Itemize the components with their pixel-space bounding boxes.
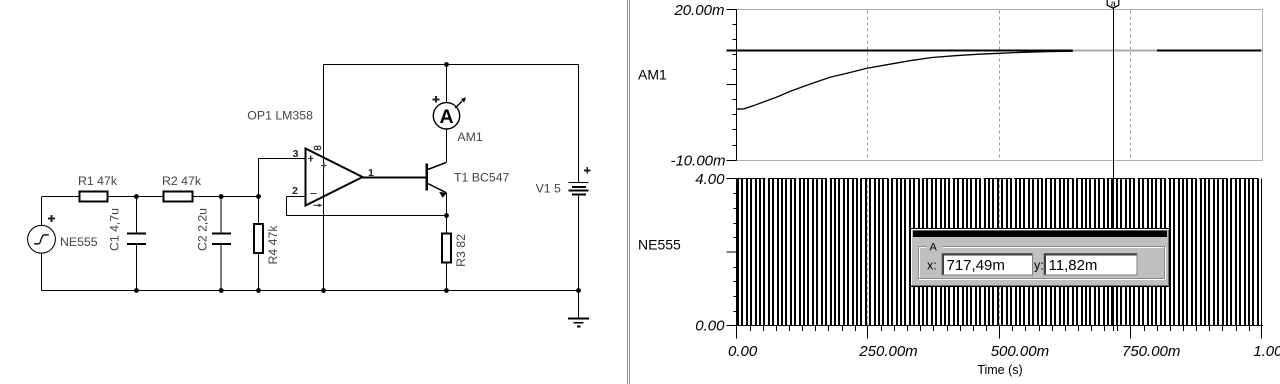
op-amp minus input mark <box>310 193 316 195</box>
cursor a vertical line <box>1113 7 1115 332</box>
wire C1 bottom <box>135 245 137 291</box>
transistor emitter lead with arrow <box>428 184 446 193</box>
svg-text:R4 47k: R4 47k <box>266 225 280 265</box>
wire R3 to bottom rail <box>446 263 448 291</box>
capacitor C2 <box>212 233 231 235</box>
svg-text:A: A <box>439 106 453 128</box>
svg-text:AM1: AM1 <box>638 67 667 83</box>
svg-text:Time (s): Time (s) <box>977 363 1022 377</box>
ground symbol <box>568 318 589 320</box>
op-amp triangle <box>306 149 363 206</box>
svg-text:750.00m: 750.00m <box>1122 343 1180 360</box>
node R1/C1/R2 junction <box>134 194 139 199</box>
NE555 x-axis <box>737 325 1264 327</box>
svg-text:A: A <box>930 242 938 254</box>
svg-text:AM1: AM1 <box>457 130 482 144</box>
cursor a handle <box>1107 0 1119 8</box>
wire op-amp power rail vertical <box>323 65 325 291</box>
svg-text:20.00m: 20.00m <box>673 2 724 19</box>
transistor T1 BC547 <box>425 164 427 191</box>
popup title bar <box>913 231 1167 238</box>
AM1 steady-state trace gray segment <box>737 50 1262 52</box>
svg-text:250.00m: 250.00m <box>858 343 917 360</box>
svg-text:R1 47k: R1 47k <box>78 174 118 188</box>
AM1 steady-state trace black right segment <box>1157 50 1262 52</box>
svg-text:x:: x: <box>927 259 937 273</box>
wire op-amp output to base <box>363 177 426 179</box>
node bottom rail C2 <box>219 288 224 293</box>
wire R2 to R4 node <box>193 196 259 198</box>
svg-text:T1 BC547: T1 BC547 <box>454 171 510 185</box>
popup field y value <box>1044 254 1137 276</box>
wire generator top lead <box>41 197 43 225</box>
svg-text:3: 3 <box>293 148 299 160</box>
AM1 y-axis major ticks <box>727 9 737 11</box>
op-amp infinity gain mark <box>314 146 317 149</box>
node bottom rail C1 <box>134 288 139 293</box>
NE555 plot gridlines <box>867 179 869 326</box>
NE555 y-axis major ticks <box>727 178 737 180</box>
node R2/C2 junction <box>219 194 224 199</box>
ammeter arrow <box>455 101 462 108</box>
svg-text:11,82m: 11,82m <box>1049 257 1098 274</box>
wire top rail <box>324 64 579 66</box>
svg-text:NE555: NE555 <box>638 237 681 253</box>
svg-text:717,49m: 717,49m <box>947 257 1005 274</box>
node bottom rail R4 <box>256 288 261 293</box>
svg-text:0.00: 0.00 <box>728 343 758 360</box>
AM1 plot y-axis <box>736 10 738 161</box>
battery plates <box>569 182 589 184</box>
generator plus sign <box>48 218 55 220</box>
wire node to R3 <box>446 216 448 234</box>
capacitor C1 <box>127 233 146 235</box>
wire feedback vertical <box>286 197 288 216</box>
wire generator bottom lead <box>41 253 43 290</box>
voltage generator VG NE555 <box>28 225 56 253</box>
wire pin 3 <box>259 158 306 160</box>
op-amp supply plus mark <box>321 165 327 167</box>
op-amp output arrow mark <box>314 204 320 206</box>
wire C2 bottom <box>220 245 222 291</box>
NE555 y-axis minor ticks <box>734 193 737 195</box>
op-amp plus input mark <box>308 158 314 160</box>
wire battery to bottom rail <box>578 196 580 291</box>
transistor collector lead <box>428 163 446 170</box>
wire C1 top <box>135 197 137 233</box>
NE555 square wave final edge <box>1261 179 1263 326</box>
NE555 square wave top edge <box>737 178 1258 180</box>
panel divider <box>627 0 629 384</box>
ammeter AM1 <box>433 103 459 129</box>
svg-text:NE555: NE555 <box>60 235 98 249</box>
node bottom rail R3 <box>444 288 449 293</box>
node bottom rail op-amp supply <box>321 288 326 293</box>
svg-text:-10.00m: -10.00m <box>670 153 725 170</box>
wire emitter down <box>446 193 448 216</box>
NE555 x-axis minor ticks <box>750 326 752 332</box>
node top rail junction <box>444 62 449 67</box>
svg-text:4.00: 4.00 <box>695 171 725 188</box>
wire top rail to battery <box>578 65 580 183</box>
resistor R4 <box>254 224 263 253</box>
popup field x value <box>942 254 1033 276</box>
svg-text:R2 47k: R2 47k <box>162 174 202 188</box>
svg-text:C1 4,7u: C1 4,7u <box>108 208 122 251</box>
svg-text:1.00: 1.00 <box>1253 343 1280 360</box>
svg-text:R3 82: R3 82 <box>454 234 468 267</box>
wire collector to ammeter <box>446 129 448 163</box>
wire C2 top <box>220 197 222 233</box>
NE555 square wave <box>737 179 1259 326</box>
cursor readout popup <box>910 228 1170 287</box>
wire source to R1 <box>42 196 80 198</box>
node emitter/R3/feedback junction <box>444 213 449 218</box>
resistor R1 <box>80 192 108 202</box>
resistor R3 <box>442 234 451 263</box>
AM1 plot gridlines <box>867 11 869 160</box>
node R4/op-amp input junction <box>256 194 261 199</box>
wire pin 2 lead <box>287 196 306 198</box>
NE555 x-axis major ticks <box>736 326 738 339</box>
svg-text:0.00: 0.00 <box>695 318 725 335</box>
ammeter plus sign <box>433 98 440 100</box>
svg-text:500.00m: 500.00m <box>991 343 1049 360</box>
resistor R2 <box>164 192 193 202</box>
wire node to R4 <box>258 197 260 225</box>
node bottom rail ground junction <box>576 288 581 293</box>
AM1 y-axis minor ticks <box>733 24 737 26</box>
svg-text:V1 5: V1 5 <box>536 182 561 196</box>
wire to ground <box>578 291 580 319</box>
AM1 steady-state trace black left segment (with cursor y tick) <box>727 50 1073 52</box>
NE555 plot y-axis <box>736 179 738 326</box>
svg-text:a: a <box>1111 0 1116 8</box>
svg-text:y:: y: <box>1034 259 1044 273</box>
wire bottom rail <box>42 290 579 292</box>
svg-text:2: 2 <box>292 185 298 197</box>
svg-text:C2 2,2u: C2 2,2u <box>195 208 209 251</box>
wire R1 to R2 <box>108 196 164 198</box>
svg-text:OP1 LM358: OP1 LM358 <box>247 109 313 123</box>
wire R4 to bottom rail <box>258 253 260 291</box>
wire up to pin 3 <box>258 159 260 197</box>
AM1 transient curve <box>737 51 1074 109</box>
AM1 plot frame <box>737 9 1263 11</box>
wire top rail to ammeter <box>446 65 448 103</box>
popup group box A <box>920 248 1166 280</box>
battery plus sign <box>584 169 591 171</box>
wire feedback horizontal to emitter <box>287 215 447 217</box>
